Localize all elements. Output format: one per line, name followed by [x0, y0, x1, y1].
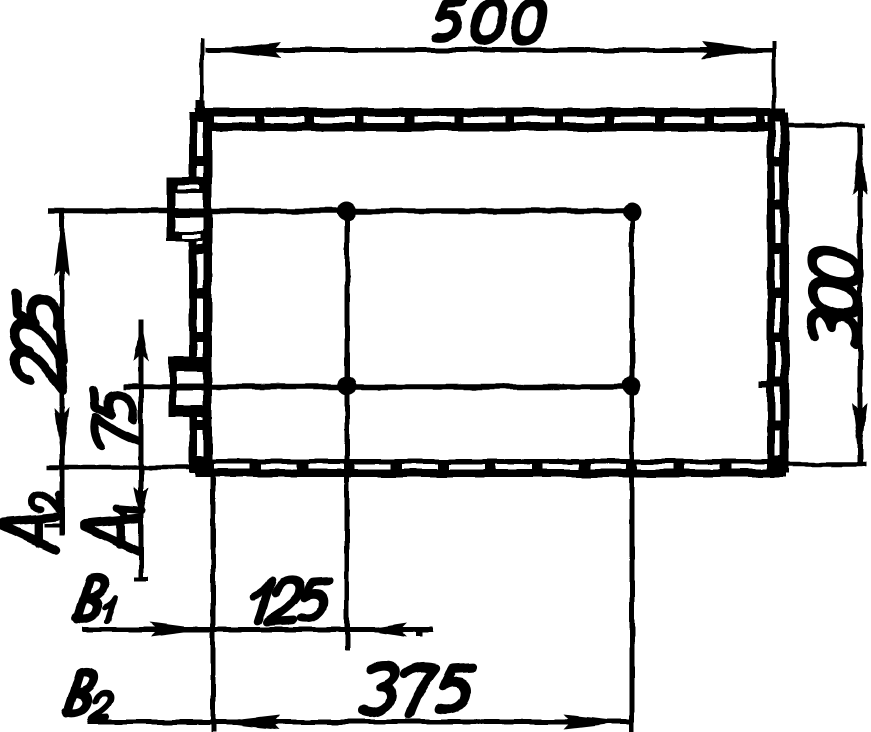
axis line B2 vertical: [630, 209, 635, 732]
node dot A1-B2: [623, 377, 642, 396]
dim 75 line foot: [134, 577, 149, 581]
dim 300 arrow down: [853, 403, 868, 463]
dim 75 arrow bottom: [134, 487, 149, 522]
dim 300 line: [858, 125, 863, 466]
left wall inner line over tabs: [203, 112, 211, 473]
bottom edge extension left: [47, 465, 196, 470]
dim 75 arrow top: [134, 320, 149, 361]
dim 300 label: [812, 247, 858, 347]
dim 125 line: [82, 627, 433, 632]
node dot A1-B1: [338, 377, 357, 396]
box top wall: [195, 100, 786, 131]
dim 225 label: [15, 294, 63, 390]
dim 375 label: [360, 666, 472, 714]
node dot A2-B1: [338, 202, 357, 221]
dim 125 arrow right: [150, 623, 203, 637]
terminal tab T1 (upper left): [167, 177, 211, 241]
axis line A2 horizontal: [48, 208, 633, 214]
box bottom wall: [195, 459, 786, 477]
axis label B2: [66, 672, 111, 718]
axis line A1 horizontal: [124, 384, 633, 390]
dim 75 line: [139, 319, 144, 578]
dim 500 line: [205, 48, 772, 53]
dim 500 arrow left: [211, 42, 281, 59]
dim 500 label: [434, 2, 546, 41]
dim 225 line: [60, 210, 65, 536]
dim 500 extension right: [772, 40, 776, 112]
dim 125 label: [248, 580, 329, 621]
dim 225 arrow down: [55, 408, 70, 466]
axis label A2: [2, 494, 60, 551]
dim 300 arrow up: [853, 131, 868, 195]
dim 300 extension bottom: [786, 462, 866, 467]
dim 500 extension left: [200, 38, 204, 110]
axis label A1: [84, 508, 142, 551]
terminal tab T2 (lower left): [169, 357, 208, 417]
scan speck: [759, 381, 768, 388]
dim 300 extension top: [789, 123, 865, 128]
axis line B1 vertical: [345, 209, 350, 650]
left edge extension vertical: [211, 477, 216, 732]
dim 225 arrow up: [55, 213, 70, 276]
dim 125 arrow left: [362, 623, 407, 637]
dim 375 line: [87, 720, 631, 725]
box left wall: [189, 112, 212, 473]
node dot A2-B2: [623, 203, 642, 222]
dim 375 arrow left: [215, 715, 280, 730]
axis label A2 tick: [44, 524, 62, 528]
dim 500 arrow right: [702, 42, 772, 59]
box right wall: [767, 112, 789, 473]
dim 75 label: [95, 389, 139, 454]
dim 375 arrow right: [564, 715, 629, 730]
axis label B1: [76, 578, 115, 621]
scan speck: [416, 631, 422, 636]
